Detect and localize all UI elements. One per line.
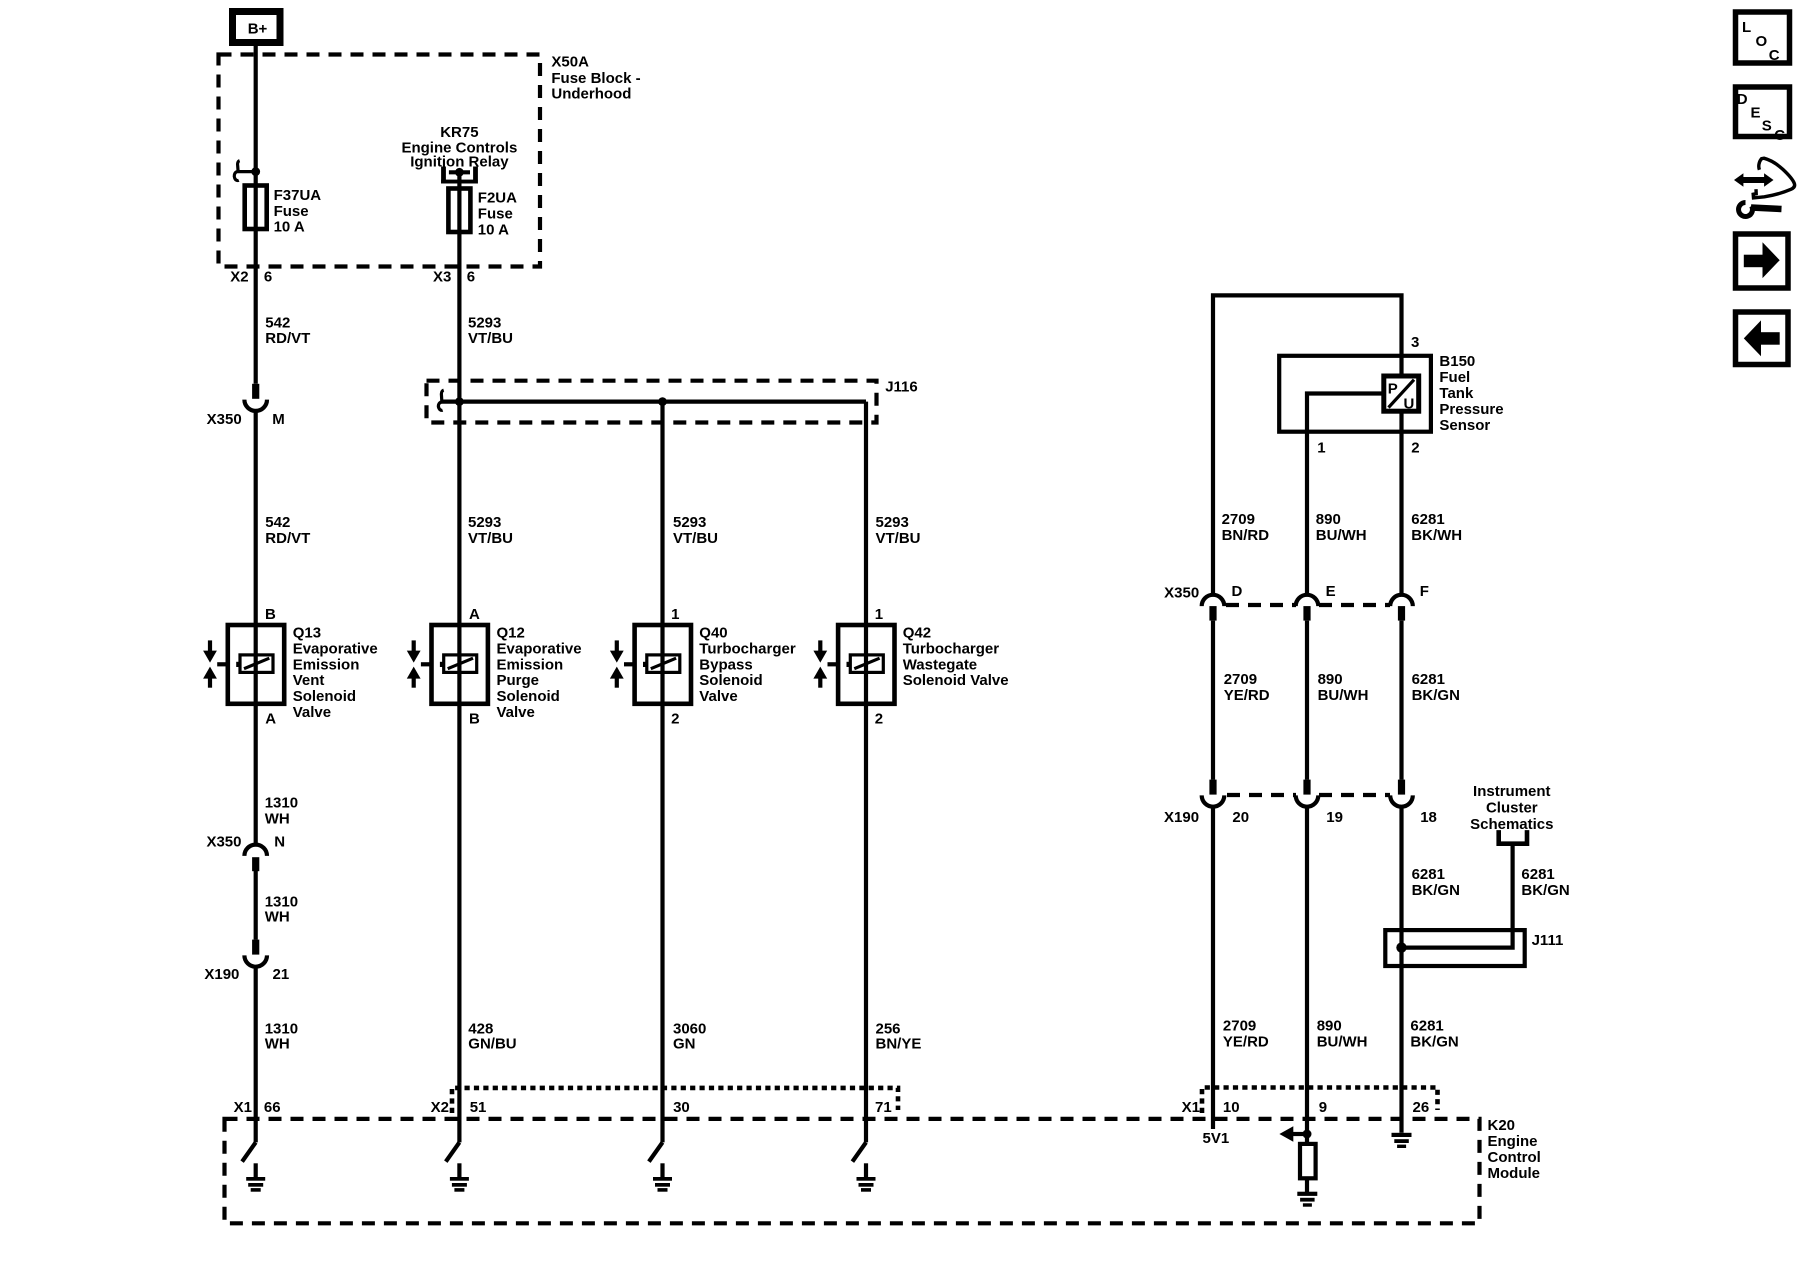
- svg-text:Tank: Tank: [1439, 385, 1474, 402]
- svg-text:Module: Module: [1488, 1165, 1541, 1182]
- wire label 6281 BK/WH: [1411, 511, 1462, 544]
- pin label X2 / 51 at ECM: [431, 1099, 487, 1116]
- connector X350 pin E: [1296, 595, 1319, 621]
- ground (internal) at ECM pin 71: [857, 1163, 876, 1191]
- solenoid valve Q12 body: [421, 625, 488, 704]
- svg-text:542: 542: [265, 514, 290, 531]
- ground (internal) at ECM pin 30: [653, 1163, 672, 1191]
- svg-text:RD/VT: RD/VT: [265, 530, 310, 547]
- svg-text:Instrument: Instrument: [1473, 783, 1551, 800]
- svg-text:B150: B150: [1439, 353, 1475, 370]
- svg-text:Bypass: Bypass: [699, 656, 752, 673]
- wire X350-F down to X190-18: [1399, 621, 1403, 780]
- wire X350-D down to X190-20: [1211, 621, 1215, 780]
- wire KR75 relay output down through fuse F2UA to J116 and Q12 (5293 circuit): [457, 172, 461, 1142]
- label Instrument Cluster Schematics: [1470, 783, 1553, 833]
- wire: P/U low reference to pin 2 down to X350-F: [1399, 411, 1403, 594]
- svg-text:5V1: 5V1: [1202, 1130, 1229, 1147]
- wire resistor to ground: [1305, 1178, 1309, 1192]
- wire label 1310 WH (lower): [265, 1021, 298, 1053]
- wire X350-N down to X190-21: [254, 871, 258, 940]
- signal arrow (to ADC) at ECM pin 9: [1279, 1126, 1307, 1142]
- wire label 256 BN/YE: [876, 1021, 922, 1053]
- resistor (pull-up) inside ECM at pin 9: [1300, 1144, 1316, 1178]
- nav icon: previous-page arrow box: [1736, 312, 1789, 365]
- svg-text:6281: 6281: [1412, 671, 1445, 688]
- connector X350 pin N (inline connector on 1310 wire): [244, 845, 267, 872]
- svg-text:BN/RD: BN/RD: [1222, 527, 1270, 544]
- svg-text:Emission: Emission: [497, 656, 564, 673]
- svg-text:Q12: Q12: [497, 625, 525, 642]
- svg-text:Valve: Valve: [497, 704, 535, 721]
- svg-text:WH: WH: [265, 909, 290, 926]
- svg-text:6281: 6281: [1412, 866, 1445, 883]
- valve actuator arrows Q42: [813, 640, 827, 687]
- svg-text:BK/GN: BK/GN: [1412, 882, 1460, 899]
- wire X190-21 down to ECM pin 66: [254, 966, 258, 1143]
- svg-text:Valve: Valve: [699, 688, 737, 705]
- svg-text:J111: J111: [1532, 932, 1564, 949]
- svg-text:2709: 2709: [1222, 511, 1255, 528]
- svg-text:10 A: 10 A: [478, 222, 509, 239]
- connector X190 pin 20: [1202, 780, 1225, 807]
- svg-text:YE/RD: YE/RD: [1224, 687, 1270, 704]
- svg-text:66: 66: [264, 1099, 281, 1116]
- wire J116 bus down to Q40: [660, 402, 664, 1143]
- wire from instrument cluster down into J111: [1402, 846, 1513, 948]
- svg-text:Q40: Q40: [699, 625, 727, 642]
- svg-text:1: 1: [671, 606, 679, 623]
- svg-text:X350: X350: [207, 411, 242, 428]
- svg-text:5293: 5293: [876, 514, 909, 531]
- svg-text:BK/GN: BK/GN: [1521, 882, 1569, 899]
- svg-text:Engine: Engine: [1488, 1133, 1538, 1150]
- svg-text:Vent: Vent: [293, 672, 325, 689]
- module K20 dashed outline: [225, 1119, 1480, 1223]
- svg-text:5293: 5293: [468, 314, 501, 331]
- svg-text:Sensor: Sensor: [1439, 417, 1490, 434]
- svg-text:21: 21: [273, 966, 290, 983]
- svg-text:VT/BU: VT/BU: [468, 330, 513, 347]
- ground (internal) below resistor: [1297, 1192, 1317, 1207]
- svg-text:Fuse Block -: Fuse Block -: [551, 70, 640, 87]
- svg-text:5293: 5293: [468, 514, 501, 531]
- label X50A Fuse Block - Underhood: [551, 54, 640, 103]
- pin label X1 / 10 at ECM (right): [1182, 1099, 1240, 1116]
- svg-text:Control: Control: [1488, 1149, 1541, 1166]
- svg-text:X350: X350: [206, 834, 241, 851]
- svg-text:1310: 1310: [265, 795, 298, 812]
- svg-text:1: 1: [1317, 440, 1325, 457]
- node: junction at ECM pin 9: [1303, 1130, 1312, 1139]
- svg-text:5293: 5293: [673, 514, 706, 531]
- node: splice junction on B+ feed at F37UA: [251, 167, 260, 176]
- valve actuator arrows Q40: [610, 640, 624, 687]
- svg-text:B: B: [265, 606, 276, 623]
- svg-text:890: 890: [1317, 1018, 1342, 1035]
- svg-text:WH: WH: [265, 1036, 290, 1053]
- label K20 Engine Control Module: [1488, 1117, 1541, 1182]
- wire label 5293 VT/BU (above Q12): [468, 514, 513, 547]
- svg-text:GN/BU: GN/BU: [468, 1036, 516, 1053]
- hook symbol at J116 bus take-off: [438, 390, 443, 410]
- node: J116 bus junction to Q12: [455, 397, 464, 406]
- wire label 1310 WH (middle): [265, 894, 298, 926]
- svg-text:YE/RD: YE/RD: [1223, 1034, 1269, 1051]
- connector X350 pin M (inline connector on 542 wire): [244, 384, 267, 411]
- svg-text:Solenoid: Solenoid: [497, 688, 560, 705]
- wire label 1310 WH (below Q13): [265, 795, 298, 828]
- junction block J116 dashed outline: [427, 381, 877, 423]
- svg-text:51: 51: [470, 1099, 487, 1116]
- svg-text:VT/BU: VT/BU: [876, 530, 921, 547]
- svg-text:X1: X1: [234, 1099, 252, 1116]
- J116 internal bus wire feeding Q12, Q40, Q42: [441, 400, 867, 404]
- svg-text:Q13: Q13: [293, 625, 321, 642]
- svg-text:Pressure: Pressure: [1439, 401, 1503, 418]
- label F37UA Fuse 10 A: [274, 187, 322, 236]
- wire label 890 BU/WH (middle): [1318, 671, 1369, 704]
- wire X350-M down to Q13 valve: [254, 410, 258, 845]
- svg-text:Emission: Emission: [293, 656, 360, 673]
- svg-text:VT/BU: VT/BU: [468, 530, 513, 547]
- dashed harness link X190 20-19: [1227, 793, 1296, 797]
- svg-text:10: 10: [1223, 1099, 1240, 1116]
- svg-text:O: O: [1756, 33, 1768, 50]
- svg-text:Solenoid: Solenoid: [699, 672, 762, 689]
- wire label 890 BU/WH (lower): [1317, 1018, 1368, 1051]
- label KR75 Engine Controls Ignition Relay: [401, 124, 517, 171]
- svg-text:BK/GN: BK/GN: [1410, 1034, 1458, 1051]
- svg-text:BU/WH: BU/WH: [1317, 1034, 1368, 1051]
- wire label 3060 GN: [673, 1021, 706, 1053]
- svg-text:3: 3: [1411, 334, 1419, 351]
- ground (internal) at ECM pin 66: [246, 1163, 265, 1191]
- svg-text:X2: X2: [431, 1099, 449, 1116]
- switch blade to ground at ECM pin 30: [649, 1142, 663, 1161]
- ground (internal) at ECM pin 26: [1392, 1133, 1412, 1148]
- svg-text:X1: X1: [1182, 1099, 1200, 1116]
- svg-text:2: 2: [671, 711, 679, 728]
- dashed harness link X350 E-F: [1319, 603, 1390, 607]
- splice pack J111 box: [1385, 930, 1524, 966]
- pin label X3 / 6 at fuse block exit (5293 wire): [433, 269, 475, 286]
- svg-text:6: 6: [467, 269, 475, 286]
- svg-text:Turbocharger: Turbocharger: [903, 640, 1000, 657]
- svg-text:20: 20: [1232, 809, 1249, 826]
- connector X190 pin 19: [1296, 780, 1319, 807]
- svg-text:26: 26: [1413, 1099, 1430, 1116]
- connector X350 pin D: [1202, 595, 1225, 621]
- dashed harness link X190 19-18: [1319, 793, 1390, 797]
- svg-text:10 A: 10 A: [274, 219, 305, 236]
- svg-text:BK/GN: BK/GN: [1412, 687, 1460, 704]
- wire X190-19 down to ECM pin 9: [1305, 806, 1309, 1144]
- wire label 2709 YE/RD (middle): [1224, 671, 1270, 704]
- svg-text:BN/YE: BN/YE: [876, 1036, 922, 1053]
- solenoid valve Q13 body: [217, 625, 284, 704]
- svg-text:C: C: [1774, 127, 1785, 144]
- sensor B150 outline box: [1279, 356, 1431, 432]
- wire label 5293 VT/BU (above Q42): [876, 514, 921, 547]
- svg-text:J116: J116: [885, 379, 918, 396]
- svg-text:Schematics: Schematics: [1470, 816, 1553, 833]
- svg-text:X190: X190: [1164, 809, 1199, 826]
- svg-text:542: 542: [265, 314, 290, 331]
- svg-text:Q42: Q42: [903, 625, 931, 642]
- svg-text:B+: B+: [248, 21, 268, 38]
- svg-text:9: 9: [1319, 1099, 1327, 1116]
- nav icon: quick-link (arrows, outline, wrench): [1734, 158, 1795, 216]
- label X190 / 21: [204, 966, 289, 983]
- svg-text:Cluster: Cluster: [1486, 799, 1538, 816]
- svg-text:Turbocharger: Turbocharger: [699, 640, 796, 657]
- svg-text:2709: 2709: [1223, 1018, 1256, 1035]
- label X350 / N: [206, 834, 285, 851]
- svg-text:Wastegate: Wastegate: [903, 656, 977, 673]
- valve actuator arrows Q12: [407, 640, 421, 687]
- svg-text:RD/VT: RD/VT: [265, 330, 310, 347]
- wire label 2709 YE/RD (lower): [1223, 1018, 1269, 1051]
- svg-text:BU/WH: BU/WH: [1318, 687, 1369, 704]
- hook symbol (wire take-off) left of F37UA junction: [234, 161, 254, 181]
- wire label 542 RD/VT (above Q13): [265, 514, 310, 547]
- svg-text:Evaporative: Evaporative: [497, 640, 582, 657]
- wire label 6281 BK/GN (above J111 left): [1412, 866, 1460, 899]
- nav icon: DESC box: [1736, 87, 1790, 144]
- svg-text:19: 19: [1326, 809, 1343, 826]
- svg-text:F2UA: F2UA: [478, 190, 517, 207]
- wire X350-E down to X190-19: [1305, 621, 1309, 780]
- svg-text:Valve: Valve: [293, 704, 331, 721]
- svg-text:BU/WH: BU/WH: [1316, 527, 1367, 544]
- svg-text:Fuse: Fuse: [274, 203, 309, 220]
- nav icon: next-page arrow box: [1736, 234, 1789, 288]
- svg-text:L: L: [1742, 19, 1751, 36]
- relay KR75 contact symbol: [441, 167, 478, 184]
- label X350 / M: [207, 411, 285, 428]
- svg-text:S: S: [1762, 118, 1772, 135]
- svg-text:E: E: [1326, 583, 1336, 600]
- svg-text:F: F: [1420, 583, 1429, 600]
- connector X1 dotted outline at ECM (right): [1202, 1088, 1438, 1114]
- svg-text:D: D: [1737, 91, 1748, 108]
- wire label 542 RD/VT (upper): [265, 314, 310, 347]
- wire label 6281 BK/GN (lower): [1410, 1018, 1458, 1051]
- svg-text:F37UA: F37UA: [274, 187, 322, 204]
- svg-text:GN: GN: [673, 1036, 696, 1053]
- fuse F37UA 10 A: [245, 186, 267, 230]
- svg-text:N: N: [274, 834, 285, 851]
- svg-text:U: U: [1404, 396, 1415, 413]
- svg-text:VT/BU: VT/BU: [673, 530, 718, 547]
- valve actuator arrows Q13: [203, 640, 217, 687]
- svg-text:P: P: [1388, 381, 1398, 398]
- svg-text:6281: 6281: [1410, 1018, 1443, 1035]
- wire label 2709 BN/RD: [1222, 511, 1270, 544]
- pin label X1 / 66 at ECM: [234, 1099, 281, 1116]
- svg-text:X3: X3: [433, 269, 451, 286]
- wire label 5293 VT/BU (above Q40): [673, 514, 718, 547]
- svg-text:D: D: [1232, 583, 1243, 600]
- svg-text:BK/WH: BK/WH: [1411, 527, 1462, 544]
- connector X2 dotted outline at ECM: [452, 1088, 898, 1113]
- wire: B150 top feed bus (pin 3 link): [1213, 295, 1402, 594]
- connector X190 pin 21 (inline connector on 1310 wire): [244, 940, 267, 967]
- svg-text:1: 1: [875, 606, 883, 623]
- dashed harness link X350 D-E: [1226, 603, 1296, 607]
- svg-text:Underhood: Underhood: [551, 86, 631, 103]
- svg-text:X350: X350: [1164, 584, 1199, 601]
- svg-text:6281: 6281: [1521, 866, 1554, 883]
- wire label 428 GN/BU: [468, 1021, 516, 1053]
- switch blade to ground at ECM pin 71: [852, 1142, 866, 1161]
- svg-text:Fuel: Fuel: [1439, 369, 1470, 386]
- svg-text:Evaporative: Evaporative: [293, 640, 378, 657]
- solenoid valve Q42 body: [828, 625, 895, 704]
- svg-text:Fuse: Fuse: [478, 206, 513, 223]
- label Q40 Turbocharger Bypass Solenoid Valve: [699, 625, 796, 706]
- label B150 Fuel Tank Pressure Sensor: [1439, 353, 1503, 434]
- svg-text:2: 2: [1411, 440, 1419, 457]
- label Q12 Evaporative Emission Purge Solenoid Valve: [497, 625, 582, 722]
- svg-text:K20: K20: [1488, 1117, 1516, 1134]
- label F2UA Fuse 10 A: [478, 190, 517, 239]
- svg-text:M: M: [272, 411, 285, 428]
- wire X190-20 down to ECM pin 10: [1211, 806, 1215, 1129]
- svg-text:18: 18: [1420, 809, 1437, 826]
- svg-text:KR75: KR75: [440, 124, 478, 141]
- wire label 5293 VT/BU (upper): [468, 314, 513, 347]
- svg-text:890: 890: [1316, 511, 1341, 528]
- svg-text:Solenoid Valve: Solenoid Valve: [903, 672, 1009, 689]
- node: J116 bus junction to Q40: [658, 397, 667, 406]
- svg-text:30: 30: [673, 1099, 690, 1116]
- connector X190 pin 18: [1390, 780, 1413, 807]
- battery feed terminal B+: [233, 12, 281, 43]
- svg-text:A: A: [469, 606, 480, 623]
- solenoid valve Q40 body: [624, 625, 691, 704]
- label Q13 Evaporative Emission Vent Solenoid Valve: [293, 625, 378, 722]
- wire label 6281 BK/GN (above J111 right): [1521, 866, 1569, 899]
- svg-text:WH: WH: [265, 811, 290, 828]
- svg-text:A: A: [265, 711, 276, 728]
- svg-text:C: C: [1769, 47, 1780, 64]
- svg-text:890: 890: [1318, 671, 1343, 688]
- fuse block X50A dashed outline: [219, 55, 541, 267]
- wire X190-18 down through J111 to ECM pin 26: [1399, 806, 1403, 1133]
- wire J116 bus corner down to Q42: [864, 402, 868, 1143]
- svg-text:X50A: X50A: [551, 54, 589, 71]
- switch blade to ground at ECM pin 66: [242, 1142, 256, 1161]
- svg-text:71: 71: [875, 1099, 892, 1116]
- svg-text:X2: X2: [230, 269, 248, 286]
- off-page bracket under Instrument Cluster Schematics: [1499, 830, 1527, 844]
- svg-text:B: B: [469, 711, 480, 728]
- svg-text:E: E: [1751, 105, 1761, 122]
- svg-text:Purge: Purge: [497, 672, 540, 689]
- wire label 6281 BK/GN (middle): [1412, 671, 1460, 704]
- wire: P/U signal lead to pin 1: [1307, 394, 1384, 595]
- label Q42 Turbocharger Wastegate Solenoid Valve: [903, 625, 1009, 690]
- wire B+ down through fuse F37UA to X350-M (542 circuit): [254, 45, 258, 384]
- pressure transducer P/U symbol inside B150: [1384, 376, 1419, 413]
- svg-text:X190: X190: [204, 966, 239, 983]
- nav icon: LOC box: [1736, 12, 1790, 64]
- svg-text:2709: 2709: [1224, 671, 1257, 688]
- fuse F2UA 10 A: [448, 189, 470, 233]
- connector X350 pin F: [1390, 595, 1413, 621]
- pin label X2 / 6 at fuse block exit (542 wire): [230, 269, 272, 286]
- node: J111 splice junction: [1396, 942, 1406, 952]
- svg-text:6281: 6281: [1411, 511, 1444, 528]
- svg-text:Solenoid: Solenoid: [293, 688, 356, 705]
- wire label 890 BU/WH (upper): [1316, 511, 1367, 544]
- svg-text:2: 2: [875, 711, 883, 728]
- svg-text:6: 6: [264, 269, 272, 286]
- ground (internal) at ECM pin 51: [450, 1163, 469, 1191]
- switch blade to ground at ECM pin 51: [446, 1142, 460, 1161]
